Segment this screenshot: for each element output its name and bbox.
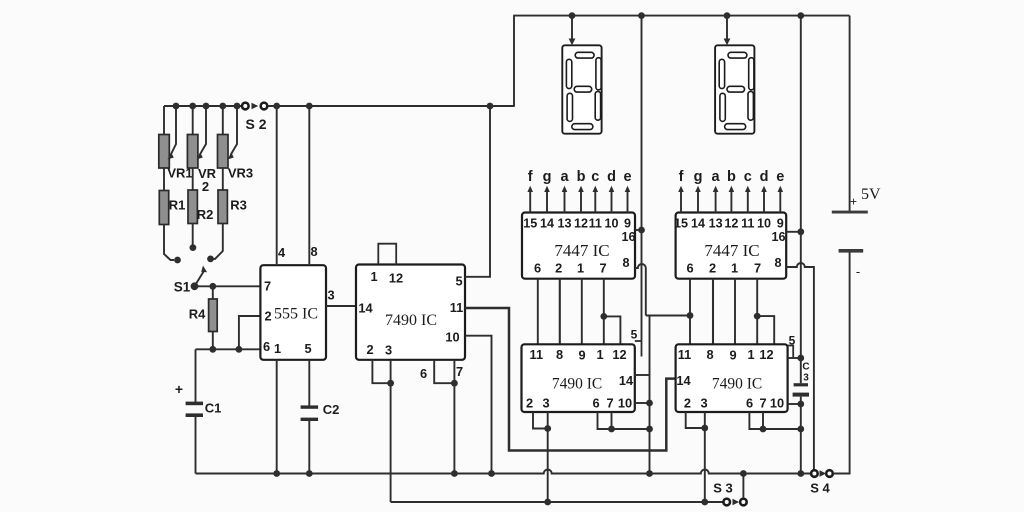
svg-text:11: 11	[678, 347, 692, 362]
wire: right drop lower to ground	[797, 397, 804, 474]
potentiometer VR2	[187, 106, 216, 194]
wire: U4 pin16 stub	[786, 231, 801, 233]
wire: reset line y=502	[391, 499, 724, 506]
svg-text:11: 11	[589, 217, 602, 231]
wires: U4 segment outputs f-e arrows	[678, 186, 783, 213]
wire: U2 pin10 to ground	[465, 336, 492, 474]
svg-text:11: 11	[741, 217, 754, 231]
counter U6 7490 IC box	[676, 344, 788, 412]
node: top rail dots	[569, 12, 805, 19]
node: rail dots left	[173, 103, 494, 110]
svg-text:13: 13	[557, 217, 571, 231]
svg-text:f: f	[528, 169, 533, 185]
svg-text:2: 2	[684, 396, 691, 411]
svg-text:11: 11	[530, 347, 544, 362]
node: ground rail dots	[273, 470, 804, 477]
decoder U4 7447 IC box	[676, 213, 787, 279]
wire: U2 pin11 cascade (thick)	[465, 308, 676, 451]
wire: mid drop x=649.5 to ground	[646, 316, 653, 474]
svg-text:c: c	[744, 169, 752, 185]
wire: U2 pins 2-3 reset U	[372, 360, 394, 387]
7490 U2 pin labels	[358, 269, 463, 381]
svg-text:12: 12	[612, 347, 626, 362]
svg-text:R3: R3	[230, 198, 247, 213]
wire: U6 pin5 stub	[788, 357, 801, 359]
svg-text:b: b	[727, 169, 736, 185]
svg-text:1: 1	[731, 261, 738, 276]
U4 bottom pin labels	[686, 261, 761, 276]
wire: U3 pin8 bus y=315.5	[646, 312, 694, 319]
svg-text:5V: 5V	[861, 186, 881, 203]
U5 top pin labels	[530, 347, 627, 363]
svg-text:d: d	[760, 169, 769, 185]
svg-text:14: 14	[540, 217, 554, 231]
battery BT1 +5V	[832, 186, 881, 279]
svg-text:15: 15	[674, 217, 688, 231]
svg-text:8: 8	[310, 244, 317, 259]
wire: U5 reset drop to S3 line	[547, 429, 549, 503]
svg-text:12: 12	[389, 271, 403, 286]
svg-text:3: 3	[700, 396, 707, 411]
svg-text:3: 3	[803, 373, 809, 384]
counter U2 7490 IC box	[356, 265, 465, 360]
svg-text:7: 7	[456, 364, 463, 379]
wire: ground rail y=473.5	[196, 470, 812, 474]
svg-text:2: 2	[202, 179, 209, 194]
wire: U2 reset to S3 line	[390, 383, 392, 502]
wire: 555 pin8 to rail	[308, 106, 310, 265]
svg-text:a: a	[560, 169, 569, 185]
svg-text:10: 10	[604, 217, 618, 231]
svg-text:6: 6	[592, 396, 599, 411]
svg-text:12: 12	[759, 347, 773, 362]
wire: +V left rail y=106 (with S2 gap)	[164, 105, 514, 107]
wire: U4 pin6 to U6 pin11	[689, 279, 691, 345]
U3 top pin labels	[523, 217, 631, 231]
U6 bottom pin labels	[684, 396, 767, 411]
7490 U2 top tab pins 1-12	[378, 244, 396, 265]
svg-text:R1: R1	[169, 198, 186, 213]
svg-text:9: 9	[624, 217, 631, 231]
wire: U3 pin1 to U5 pin9	[581, 279, 583, 345]
wires: U3 segment outputs f-e arrows	[527, 186, 630, 213]
wire: U3 pin7 to U5 pins1-12	[600, 279, 620, 345]
svg-text:8: 8	[556, 347, 563, 362]
decoder U3 7447 IC box	[522, 213, 635, 279]
svg-text:g: g	[694, 169, 703, 185]
svg-text:1: 1	[577, 261, 584, 276]
resistor R3	[213, 168, 247, 259]
svg-text:S 4: S 4	[810, 481, 830, 496]
svg-text:13: 13	[709, 217, 723, 231]
svg-text:10: 10	[445, 330, 459, 345]
wire: U3 pin8 hop and drop	[635, 264, 646, 316]
potentiometer VR1	[159, 106, 193, 181]
svg-text:10: 10	[757, 217, 771, 231]
svg-text:b: b	[577, 169, 586, 185]
svg-text:g: g	[543, 169, 552, 185]
svg-text:7: 7	[754, 261, 761, 276]
svg-text:16: 16	[771, 230, 785, 244]
wire: U2 pins 6-7 gnd U	[434, 360, 458, 387]
svg-text:S 2: S 2	[245, 116, 266, 132]
wire: S1 to 555 pin7	[195, 283, 261, 290]
svg-text:1: 1	[747, 347, 754, 362]
wire: U3 pin16 stub	[635, 229, 642, 231]
svg-text:e: e	[623, 169, 631, 185]
display DS1 (7-segment)	[562, 45, 601, 133]
svg-text:R2: R2	[197, 207, 214, 222]
svg-text:6: 6	[534, 261, 541, 276]
svg-text:1: 1	[274, 341, 281, 356]
wire: U4 pin1 to U6 pin9	[734, 279, 736, 345]
svg-text:8: 8	[706, 347, 713, 362]
svg-text:9: 9	[578, 348, 585, 363]
svg-text:7: 7	[606, 396, 613, 411]
svg-text:5: 5	[304, 341, 311, 356]
labels: U4 segment letters	[679, 169, 785, 185]
wire: 555 pin2 jog	[239, 316, 261, 349]
svg-text:14: 14	[619, 373, 634, 388]
wire: U3 pin6 to U5 pin11	[537, 279, 539, 345]
svg-text:R4: R4	[189, 307, 206, 322]
svg-text:555 IC: 555 IC	[274, 306, 318, 323]
555 pin labels	[263, 244, 335, 356]
svg-text:C: C	[802, 362, 809, 373]
U3 bottom pin labels	[534, 261, 607, 276]
svg-text:7447 IC: 7447 IC	[704, 241, 759, 260]
svg-text:5: 5	[631, 328, 638, 342]
svg-text:10: 10	[770, 396, 784, 411]
U6 side pin labels	[676, 373, 784, 411]
svg-text:3: 3	[542, 396, 549, 411]
svg-text:8: 8	[774, 256, 781, 270]
svg-text:+: +	[850, 195, 857, 209]
switch S2	[242, 103, 267, 132]
svg-text:14: 14	[691, 217, 705, 231]
U3 pin8 label	[622, 256, 629, 270]
wire: U5 pins 2-3 reset U	[533, 412, 551, 432]
svg-text:6: 6	[420, 366, 427, 381]
svg-text:7490 IC: 7490 IC	[385, 312, 437, 329]
svg-text:14: 14	[358, 301, 373, 316]
capacitor C1	[175, 349, 221, 473]
svg-text:2: 2	[709, 261, 716, 276]
display DS2 (7-segment)	[715, 45, 754, 133]
svg-text:f: f	[679, 169, 684, 185]
svg-text:2: 2	[366, 342, 373, 357]
svg-text:14: 14	[676, 373, 691, 388]
wire: U6 reset drop to S3 line	[704, 428, 706, 502]
wire: U6 6-7 to right drop	[763, 428, 801, 430]
svg-text:7490 IC: 7490 IC	[712, 376, 762, 393]
svg-text:2: 2	[526, 396, 533, 411]
wire: node row pins 2-6-R4-C1 y=349.3	[196, 346, 261, 353]
switch S3	[713, 481, 746, 506]
wire: 555 pin3 to 7490 pin14	[326, 305, 356, 307]
switch S1 contacts	[174, 244, 214, 263]
wire: U4 pin2 to U6 pin8	[712, 279, 714, 345]
switch S1	[174, 266, 207, 295]
wire: +V riser x=514	[513, 16, 515, 107]
wire: U2 pin5 to +V	[465, 107, 490, 277]
svg-text:7: 7	[599, 261, 606, 276]
wire: S3 to ground rail	[742, 474, 744, 499]
switch S4	[810, 470, 833, 495]
U5 side pin labels	[618, 373, 634, 411]
svg-text:2: 2	[555, 261, 562, 276]
wire: +V drop to U5 pin5 x=641.5	[638, 16, 645, 340]
wire: U5 pin10 stub	[634, 402, 650, 404]
svg-text:7490 IC: 7490 IC	[552, 376, 602, 393]
svg-text:16: 16	[621, 230, 635, 244]
svg-text:C2: C2	[323, 402, 340, 417]
svg-text:d: d	[607, 169, 616, 185]
wire: U5 6-7 to mid drop	[612, 428, 650, 430]
svg-text:C1: C1	[205, 401, 222, 416]
svg-text:+: +	[175, 381, 183, 397]
labels: U3 segment letters	[528, 169, 632, 185]
wire: S4 to battery minus	[833, 253, 850, 474]
wire: DS1 anode arrow	[569, 16, 576, 46]
svg-text:a: a	[712, 169, 721, 185]
wire: U2 6-7 to ground	[453, 383, 455, 473]
svg-text:15: 15	[523, 217, 537, 231]
potentiometer VR3	[218, 106, 254, 181]
svg-text:7447 IC: 7447 IC	[554, 241, 609, 260]
U4 top pin labels	[674, 217, 784, 231]
svg-text:6: 6	[263, 339, 270, 354]
counter U5 7490 IC box	[522, 344, 635, 412]
svg-text:c: c	[591, 169, 599, 185]
U5 bottom pin labels	[526, 396, 614, 411]
svg-text:5: 5	[455, 274, 462, 289]
wire: U6 pins 2-3 reset U	[686, 412, 708, 431]
resistor R4	[189, 286, 218, 352]
capacitor C2	[301, 360, 340, 474]
capacitor C3	[793, 362, 810, 397]
U6 pin5 notch	[788, 334, 796, 359]
wire: U4 pin7 to U6 pins1-12	[754, 279, 774, 345]
svg-text:-: -	[856, 264, 860, 279]
svg-text:1: 1	[370, 269, 377, 284]
svg-text:4: 4	[278, 245, 286, 260]
wire: +V drop right x=800.8 upper	[797, 16, 804, 384]
svg-text:9: 9	[729, 348, 736, 363]
svg-text:12: 12	[574, 217, 588, 231]
U4 pin16 label	[771, 230, 785, 244]
svg-text:3: 3	[327, 288, 334, 303]
U4 pin8 label	[774, 256, 781, 270]
U3 pin16 label	[621, 230, 635, 244]
svg-text:6: 6	[746, 396, 753, 411]
op-amp U1 555 IC box	[260, 265, 326, 360]
svg-text:6: 6	[686, 261, 693, 276]
svg-text:9: 9	[777, 217, 784, 231]
wire: 555 pin1 to ground	[276, 360, 278, 474]
resistor R1	[159, 168, 185, 260]
svg-text:e: e	[776, 169, 784, 185]
wire: U5 pin14 stub	[634, 374, 650, 376]
svg-text:3: 3	[385, 343, 392, 358]
svg-text:S1: S1	[174, 280, 191, 295]
svg-text:VR3: VR3	[228, 166, 253, 181]
svg-text:2: 2	[264, 309, 271, 324]
wire: 555 pin4 to rail	[276, 106, 278, 265]
svg-text:1: 1	[596, 347, 603, 362]
U5 pin5 notch	[631, 328, 642, 357]
svg-text:S 3: S 3	[713, 481, 733, 496]
U6 top pin labels	[678, 347, 774, 363]
wire: U4 pin8 hop to S4	[786, 263, 814, 470]
svg-text:7: 7	[264, 279, 271, 294]
wire: +V top rail y=15.6	[513, 15, 849, 17]
wire: U6 pins 6-7 gnd U	[749, 412, 766, 432]
svg-text:7: 7	[759, 396, 766, 411]
wire: U5 pins 6-7 gnd U	[598, 412, 615, 432]
svg-text:5: 5	[789, 334, 796, 348]
wire: DS2 anode arrow	[724, 16, 731, 46]
svg-text:8: 8	[622, 256, 629, 270]
svg-text:10: 10	[618, 396, 632, 411]
wire: U6 pin10 stub	[788, 403, 801, 405]
svg-text:11: 11	[450, 300, 464, 315]
svg-text:12: 12	[724, 217, 738, 231]
wire: battery plus riser	[849, 16, 851, 212]
wire: U3 pin2 to U5 pin8	[559, 279, 561, 345]
resistor R2	[188, 168, 213, 245]
